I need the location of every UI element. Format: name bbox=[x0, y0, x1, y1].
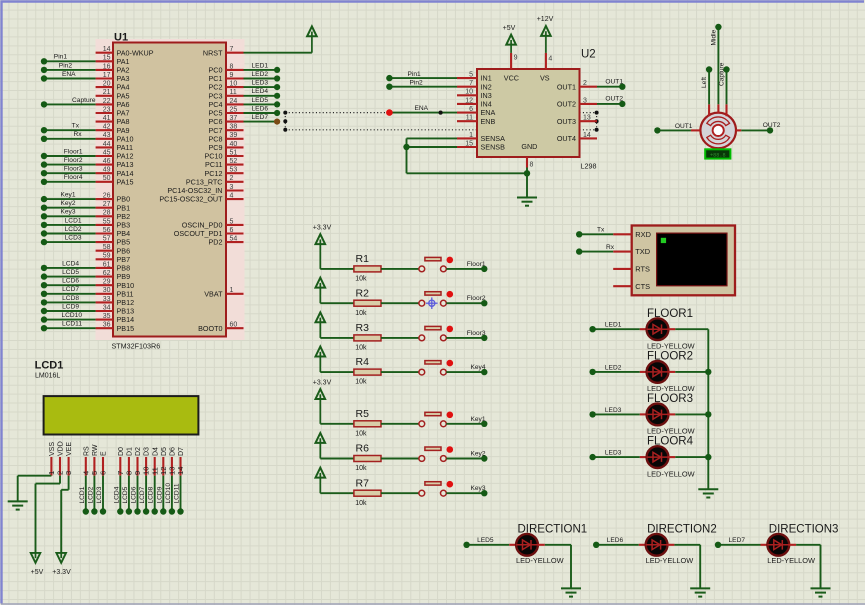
svg-text:LCD9: LCD9 bbox=[156, 486, 163, 503]
svg-text:4: 4 bbox=[230, 193, 234, 200]
LCD1 pin 6 E bbox=[102, 457, 104, 476]
U1 pin 60 BOOT0 bbox=[226, 327, 244, 329]
wire Pin1 to U1 bbox=[44, 60, 96, 62]
wire R4 row bbox=[320, 371, 354, 373]
svg-text:20: 20 bbox=[103, 81, 111, 88]
wire LED to ground bbox=[674, 544, 700, 546]
LCD1 screen bbox=[44, 396, 199, 434]
LCD1 pin 9 D2 bbox=[136, 457, 138, 476]
U2 pin 7 IN2 bbox=[457, 86, 477, 88]
wire LCD3 to U1 bbox=[44, 241, 96, 243]
resistor R6 bbox=[354, 456, 381, 462]
wire LED1 to LED bbox=[593, 328, 640, 330]
resistor R1 bbox=[354, 266, 381, 272]
svg-text:ENA: ENA bbox=[415, 105, 429, 112]
origin marker bbox=[426, 297, 438, 309]
push button for Floor1 bbox=[419, 266, 425, 272]
motor top pins bbox=[708, 104, 710, 116]
U1 pin 61 PB8 bbox=[96, 267, 113, 269]
svg-text:LCD6: LCD6 bbox=[131, 486, 138, 503]
U1 pin 41 PA8 bbox=[96, 121, 113, 123]
ground at DIRECTION3 bbox=[811, 587, 831, 589]
svg-text:LED-YELLOW: LED-YELLOW bbox=[647, 427, 695, 436]
svg-text:16: 16 bbox=[103, 63, 111, 70]
U2 pin 12 IN4 bbox=[457, 103, 477, 105]
svg-text:LED3: LED3 bbox=[605, 450, 622, 457]
svg-text:15: 15 bbox=[103, 55, 111, 62]
wire LCD7 from LCD pin bbox=[145, 476, 147, 512]
svg-text:D2: D2 bbox=[135, 447, 142, 456]
svg-text:VDD: VDD bbox=[58, 441, 65, 456]
svg-text:3: 3 bbox=[64, 471, 73, 475]
svg-text:10k: 10k bbox=[355, 345, 367, 352]
svg-text:LED7: LED7 bbox=[729, 537, 746, 544]
wire R3 row bbox=[320, 337, 354, 339]
svg-text:LED5: LED5 bbox=[477, 537, 494, 544]
svg-text:Left: Left bbox=[701, 77, 708, 88]
svg-text:1: 1 bbox=[230, 287, 234, 294]
svg-text:PC15-OSC32_OUT: PC15-OSC32_OUT bbox=[159, 195, 223, 204]
svg-text:Pin2: Pin2 bbox=[410, 80, 424, 87]
svg-text:53: 53 bbox=[230, 167, 238, 174]
dotted wire PC5 to ENA bbox=[285, 112, 389, 114]
svg-text:CTS: CTS bbox=[635, 282, 650, 291]
terminal pin TXD bbox=[613, 251, 632, 253]
U2 pin 9 VCC bbox=[510, 53, 512, 69]
svg-text:5: 5 bbox=[230, 218, 234, 225]
svg-text:+88.8: +88.8 bbox=[710, 152, 726, 158]
svg-text:LED6: LED6 bbox=[607, 537, 624, 544]
power +3.3V arrow for R4 bbox=[319, 352, 321, 372]
svg-text:LCD1: LCD1 bbox=[35, 360, 64, 372]
virtual terminal screen bbox=[657, 233, 727, 286]
U1 pin 52 PC11 bbox=[226, 164, 244, 166]
svg-text:LCD9: LCD9 bbox=[62, 303, 79, 310]
wire U2 SENSB bbox=[407, 146, 458, 148]
wire OUT2 from motor bbox=[741, 129, 770, 131]
wire Key3 to U1 bbox=[44, 215, 96, 217]
wire LCD6 to U1 bbox=[44, 284, 96, 286]
svg-text:OUT2: OUT2 bbox=[557, 100, 576, 109]
U1 pin 24 PC4 bbox=[226, 103, 244, 105]
svg-text:61: 61 bbox=[103, 261, 111, 268]
LCD1 pin 13 D6 bbox=[171, 457, 173, 476]
U1 pin 28 PB2 bbox=[96, 215, 113, 217]
svg-text:LCD11: LCD11 bbox=[62, 321, 82, 328]
wire LCD10 to U1 bbox=[44, 319, 96, 321]
wire LCD1 to U1 bbox=[44, 224, 96, 226]
svg-text:D3: D3 bbox=[144, 447, 151, 456]
U2 pin 10 IN3 bbox=[457, 94, 477, 96]
wire LED6 from U1 bbox=[244, 112, 278, 114]
svg-text:OUT1: OUT1 bbox=[675, 123, 693, 130]
svg-text:D7: D7 bbox=[178, 447, 185, 456]
svg-text:LCD1: LCD1 bbox=[79, 486, 86, 503]
motor driver U2 body bbox=[477, 69, 580, 157]
svg-text:40: 40 bbox=[230, 141, 238, 148]
svg-text:R3: R3 bbox=[356, 322, 370, 334]
wire R7 row bbox=[320, 492, 354, 494]
svg-text:10: 10 bbox=[230, 81, 238, 88]
svg-text:Midle: Midle bbox=[710, 29, 717, 45]
svg-text:39: 39 bbox=[230, 132, 238, 139]
svg-text:LED2: LED2 bbox=[605, 364, 622, 371]
wire Tx to terminal bbox=[579, 233, 613, 235]
svg-text:LED1: LED1 bbox=[252, 62, 269, 69]
wire Pin2 to U2 IN2 bbox=[389, 86, 457, 88]
resistor R3 bbox=[354, 335, 381, 341]
svg-text:Key4: Key4 bbox=[470, 364, 485, 371]
svg-text:LCD6: LCD6 bbox=[62, 278, 79, 285]
svg-text:3: 3 bbox=[583, 97, 587, 104]
svg-text:11: 11 bbox=[466, 115, 473, 122]
svg-text:Rx: Rx bbox=[606, 244, 615, 251]
svg-text:25: 25 bbox=[230, 106, 238, 113]
svg-text:R2: R2 bbox=[356, 287, 370, 299]
svg-text:26: 26 bbox=[103, 193, 111, 200]
wire Tx to U1 bbox=[44, 129, 96, 131]
wire Rx to U1 bbox=[44, 138, 96, 140]
wire LED7 from U1 bbox=[244, 121, 278, 123]
LCD1 pin 8 D1 bbox=[128, 457, 130, 476]
svg-text:LED-YELLOW: LED-YELLOW bbox=[647, 469, 695, 478]
svg-text:Key2: Key2 bbox=[470, 451, 485, 458]
ground at DIRECTION2 bbox=[690, 587, 710, 589]
wire button to Floor1 bbox=[446, 268, 484, 270]
svg-text:Tx: Tx bbox=[72, 123, 80, 130]
resistor R2 bbox=[354, 300, 381, 306]
svg-text:43: 43 bbox=[103, 132, 111, 139]
svg-text:OUT2: OUT2 bbox=[763, 122, 781, 129]
U1 pin 29 PB10 bbox=[96, 284, 113, 286]
svg-text:VCC: VCC bbox=[504, 74, 519, 83]
svg-text:R1: R1 bbox=[356, 253, 370, 265]
wire LED2 to LED bbox=[593, 371, 640, 373]
U1 pin 62 PB9 bbox=[96, 276, 113, 278]
svg-text:52: 52 bbox=[230, 158, 238, 165]
U1 pin 50 PA15 bbox=[96, 181, 113, 183]
U1 pin 23 PA7 bbox=[96, 112, 113, 114]
svg-text:LED-YELLOW: LED-YELLOW bbox=[647, 341, 695, 350]
U1 pin 22 PA6 bbox=[96, 103, 113, 105]
svg-text:OUT1: OUT1 bbox=[557, 82, 576, 91]
wire R7 to button bbox=[381, 492, 419, 494]
wire LED to bus bbox=[675, 328, 708, 330]
wire R6 to button bbox=[381, 458, 419, 460]
svg-text:+3.3V: +3.3V bbox=[313, 380, 332, 387]
svg-text:Capture: Capture bbox=[719, 62, 726, 86]
svg-text:6: 6 bbox=[230, 227, 234, 234]
svg-text:7: 7 bbox=[469, 80, 473, 87]
wire button to Floor2 bbox=[446, 302, 484, 304]
wire U2 OUT1 stub bbox=[597, 86, 622, 88]
wire LED5 from U1 bbox=[244, 103, 278, 105]
wire R2 to button bbox=[381, 302, 419, 304]
svg-text:LCD7: LCD7 bbox=[62, 286, 79, 293]
U1 pin 16 PA2 bbox=[96, 69, 113, 71]
svg-text:Pin1: Pin1 bbox=[408, 71, 422, 78]
svg-text:10k: 10k bbox=[355, 276, 367, 283]
wire LED to bus bbox=[675, 456, 708, 458]
U2 pin 3 OUT2 bbox=[580, 103, 598, 105]
wire U2 GND down bbox=[526, 168, 528, 198]
svg-text:U1: U1 bbox=[114, 32, 128, 44]
svg-text:57: 57 bbox=[103, 236, 111, 243]
U1 pin 59 PB7 bbox=[96, 258, 113, 260]
svg-text:LED7: LED7 bbox=[252, 114, 269, 121]
svg-text:Floor4: Floor4 bbox=[64, 174, 83, 181]
svg-text:GND: GND bbox=[521, 142, 537, 151]
svg-text:VSS: VSS bbox=[49, 442, 56, 456]
wire Capture to U1 bbox=[44, 103, 96, 105]
dotted wire lower run bbox=[285, 129, 477, 131]
svg-text:LED3: LED3 bbox=[252, 80, 269, 87]
wire LCD VEE to +3.3V bbox=[68, 476, 70, 490]
LCD1 pin 4 RS bbox=[85, 457, 87, 476]
wire button to Key3 bbox=[446, 492, 484, 494]
svg-text:Tx: Tx bbox=[597, 227, 605, 234]
svg-text:3: 3 bbox=[230, 184, 234, 191]
U1 pin 10 PC2 bbox=[226, 86, 244, 88]
U2 pin 15 SENSB bbox=[457, 146, 477, 148]
svg-text:Capture: Capture bbox=[72, 97, 96, 104]
U1 pin 39 PC8 bbox=[226, 138, 244, 140]
wire LED to ground bbox=[545, 544, 571, 546]
svg-text:5: 5 bbox=[469, 72, 473, 79]
svg-text:LED-YELLOW: LED-YELLOW bbox=[767, 556, 815, 565]
resistor R4 bbox=[354, 369, 381, 375]
svg-text:Key1: Key1 bbox=[470, 416, 485, 423]
motor right pin bbox=[736, 129, 742, 131]
virtual terminal body bbox=[632, 226, 735, 296]
push button for Floor3 bbox=[419, 335, 425, 341]
svg-text:23: 23 bbox=[103, 106, 111, 113]
svg-text:SENSB: SENSB bbox=[481, 143, 506, 152]
U1 pin 36 PB15 bbox=[96, 327, 113, 329]
wire button to Key1 bbox=[446, 423, 484, 425]
svg-text:37: 37 bbox=[230, 115, 238, 122]
svg-text:41: 41 bbox=[103, 115, 111, 122]
svg-text:PC13_RTC: PC13_RTC bbox=[186, 177, 223, 186]
svg-text:LCD8: LCD8 bbox=[62, 295, 79, 302]
svg-text:10k: 10k bbox=[355, 379, 367, 386]
U1 pin 26 PB0 bbox=[96, 198, 113, 200]
svg-text:30: 30 bbox=[103, 287, 111, 294]
wire Floor1 to U1 bbox=[44, 155, 96, 157]
LCD1 pin 2 VDD bbox=[59, 457, 61, 476]
LCD1 pin 1 VSS bbox=[50, 457, 52, 476]
terminal pin CTS bbox=[613, 285, 632, 287]
svg-text:PA15: PA15 bbox=[117, 177, 134, 186]
svg-text:LCD3: LCD3 bbox=[96, 486, 103, 503]
svg-text:LED-YELLOW: LED-YELLOW bbox=[646, 556, 694, 565]
svg-text:+3.3V: +3.3V bbox=[52, 569, 71, 576]
power +3.3V arrow for R6 bbox=[319, 438, 321, 458]
wire Floor3 to U1 bbox=[44, 172, 96, 174]
svg-text:Floor1: Floor1 bbox=[467, 261, 486, 268]
svg-text:8: 8 bbox=[230, 63, 234, 70]
wire button to Key4 bbox=[446, 371, 484, 373]
svg-text:10: 10 bbox=[465, 89, 473, 96]
U1 pin 20 PA4 bbox=[96, 86, 113, 88]
wire ENA to U2 ENA bbox=[389, 112, 457, 114]
power +3.3V down arrow bbox=[60, 553, 62, 558]
svg-text:35: 35 bbox=[103, 313, 111, 320]
svg-text:TXD: TXD bbox=[635, 247, 650, 256]
svg-text:LED1: LED1 bbox=[605, 322, 622, 329]
svg-text:21: 21 bbox=[103, 89, 111, 96]
U1 pin 3 PC14-OSC32_IN bbox=[226, 189, 244, 191]
U1 pin 7 NRST bbox=[226, 52, 244, 54]
svg-text:10k: 10k bbox=[355, 430, 367, 437]
U2 pin 13 OUT3 bbox=[580, 120, 598, 122]
svg-text:Floor2: Floor2 bbox=[64, 157, 83, 164]
svg-text:24: 24 bbox=[230, 98, 238, 105]
svg-text:D4: D4 bbox=[152, 447, 159, 456]
power +12V at U2 VS bbox=[545, 31, 547, 53]
motor left pin bbox=[691, 129, 701, 131]
svg-text:45: 45 bbox=[103, 149, 111, 156]
U1 pin 37 PC6 bbox=[226, 121, 244, 123]
wire Key1 to U1 bbox=[44, 198, 96, 200]
wire ENA to U1 bbox=[44, 78, 96, 80]
U1 pin 21 PA5 bbox=[96, 95, 113, 97]
power +3.3V arrow for R7 bbox=[319, 473, 321, 493]
U1 pin 17 PA3 bbox=[96, 77, 113, 79]
svg-text:RW: RW bbox=[92, 444, 99, 456]
svg-text:+12V: +12V bbox=[537, 16, 554, 23]
svg-text:17: 17 bbox=[103, 72, 111, 79]
power +3.3V arrow for R3 bbox=[319, 318, 321, 338]
svg-text:LCD10: LCD10 bbox=[165, 483, 172, 504]
ground at DIRECTION1 bbox=[561, 587, 581, 589]
svg-text:ENA: ENA bbox=[62, 71, 76, 78]
svg-text:LCD11: LCD11 bbox=[174, 483, 181, 503]
svg-text:50: 50 bbox=[103, 175, 111, 182]
dotted wire vertical left bbox=[284, 113, 286, 130]
U1 pin 30 PB11 bbox=[96, 293, 113, 295]
wire Pin2 to U1 bbox=[44, 69, 96, 71]
wire Rx to terminal bbox=[579, 251, 613, 253]
wire LCD8 to U1 bbox=[44, 301, 96, 303]
svg-text:NRST: NRST bbox=[203, 48, 223, 57]
wire LCD2 to U1 bbox=[44, 233, 96, 235]
U1 pin 54 PD2 bbox=[226, 241, 244, 243]
svg-text:59: 59 bbox=[103, 253, 111, 260]
wire LCD2 from LCD pin bbox=[93, 476, 95, 512]
wire R5 row bbox=[320, 423, 354, 425]
svg-text:14: 14 bbox=[103, 46, 111, 53]
svg-text:R6: R6 bbox=[356, 443, 370, 455]
U2 pin 8 GND bbox=[526, 157, 528, 168]
svg-text:6: 6 bbox=[469, 106, 473, 113]
svg-text:LED2: LED2 bbox=[252, 71, 269, 78]
svg-text:6: 6 bbox=[99, 471, 108, 475]
ground at U2 bbox=[517, 197, 537, 199]
svg-text:PA5: PA5 bbox=[117, 91, 130, 100]
U1 pin 45 PA12 bbox=[96, 155, 113, 157]
svg-text:9: 9 bbox=[230, 72, 234, 79]
push button for Key4 bbox=[419, 369, 425, 375]
power +3.3V arrow for R2 bbox=[319, 283, 321, 303]
svg-text:LCD7: LCD7 bbox=[139, 486, 146, 503]
wire LCD5 from LCD pin bbox=[128, 476, 130, 512]
wire LED3 to LED bbox=[593, 456, 640, 458]
LED D5 DIRECTION1 bbox=[467, 544, 510, 546]
svg-text:BOOT0: BOOT0 bbox=[198, 324, 222, 333]
svg-text:10k: 10k bbox=[355, 465, 367, 472]
wire R5 to button bbox=[381, 423, 419, 425]
svg-text:22: 22 bbox=[103, 98, 111, 105]
U1 pin 27 PB1 bbox=[96, 207, 113, 209]
svg-text:11: 11 bbox=[230, 89, 237, 96]
wire LCD1 from LCD pin bbox=[85, 476, 87, 512]
wire LCD10 from LCD pin bbox=[171, 476, 173, 512]
LCD1 pin 14 D7 bbox=[179, 457, 181, 476]
svg-text:PB15: PB15 bbox=[117, 324, 135, 333]
wire button to Floor3 bbox=[446, 337, 484, 339]
wire LED4 from U1 bbox=[244, 95, 278, 97]
U1 pin 1 VBAT bbox=[226, 293, 244, 295]
wire LCD11 to U1 bbox=[44, 327, 96, 329]
svg-text:36: 36 bbox=[103, 322, 111, 329]
LCD1 pin 5 RW bbox=[93, 457, 95, 476]
svg-text:58: 58 bbox=[103, 244, 111, 251]
svg-text:28: 28 bbox=[103, 210, 111, 217]
U1 pin 57 PB5 bbox=[96, 241, 113, 243]
wire LCD6 from LCD pin bbox=[137, 476, 139, 512]
wire Midle to motor bbox=[717, 27, 719, 104]
wire R1 to button bbox=[381, 268, 419, 270]
wire button to Key2 bbox=[446, 458, 484, 460]
U1 pin 58 PB6 bbox=[96, 250, 113, 252]
svg-text:VEE: VEE bbox=[66, 442, 73, 456]
svg-text:OUT2: OUT2 bbox=[605, 96, 623, 103]
wire LCD7 to U1 bbox=[44, 293, 96, 295]
U1 pin 53 PC12 bbox=[226, 172, 244, 174]
wire LCD11 from LCD pin bbox=[180, 476, 182, 512]
svg-text:VS: VS bbox=[540, 74, 550, 83]
svg-text:Key3: Key3 bbox=[470, 485, 485, 492]
svg-text:Pin2: Pin2 bbox=[59, 62, 73, 69]
wire U2 SENSA loop bbox=[407, 137, 458, 139]
svg-text:55: 55 bbox=[103, 218, 111, 225]
terminal cursor bbox=[661, 238, 666, 243]
svg-text:10k: 10k bbox=[355, 500, 367, 507]
wire OUT1 to motor bbox=[657, 129, 691, 131]
svg-text:LCD5: LCD5 bbox=[62, 269, 79, 276]
wire R2 row bbox=[320, 302, 354, 304]
svg-text:34: 34 bbox=[103, 304, 111, 311]
U2 pin 11 ENB bbox=[457, 120, 477, 122]
U1 pin 33 PB12 bbox=[96, 301, 113, 303]
U1 pin 55 PB3 bbox=[96, 224, 113, 226]
U1 pin 5 OSCIN_PD0 bbox=[226, 224, 244, 226]
svg-text:+3.3V: +3.3V bbox=[313, 225, 332, 232]
svg-text:LM016L: LM016L bbox=[35, 373, 60, 380]
svg-text:10k: 10k bbox=[355, 310, 367, 317]
svg-text:STM32F103R6: STM32F103R6 bbox=[112, 342, 161, 351]
wire R3 to button bbox=[381, 337, 419, 339]
svg-text:D5: D5 bbox=[161, 447, 168, 456]
wire Floor2 to U1 bbox=[44, 164, 96, 166]
svg-text:62: 62 bbox=[103, 270, 111, 277]
svg-text:LCD4: LCD4 bbox=[113, 486, 120, 503]
U2 pin 5 IN1 bbox=[457, 77, 477, 79]
ground at floor bus bbox=[698, 488, 718, 490]
svg-text:OUT4: OUT4 bbox=[557, 134, 576, 143]
U1 selection halo bbox=[96, 39, 245, 340]
